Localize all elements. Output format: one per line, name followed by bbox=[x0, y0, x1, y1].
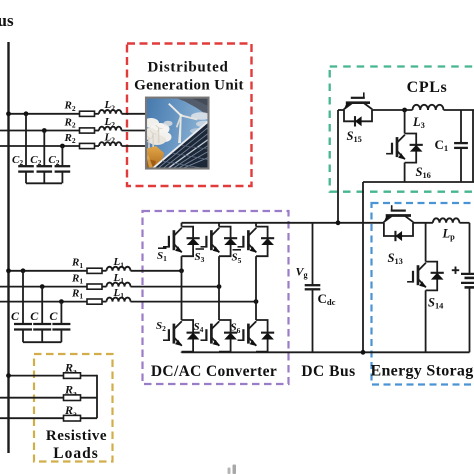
resistor R1 (3) bbox=[87, 299, 102, 304]
svg-text:Ra: Ra bbox=[64, 403, 77, 418]
svg-text:L2: L2 bbox=[104, 99, 116, 112]
R1 label (2) bbox=[71, 272, 83, 285]
capacitor C (3) plates bbox=[52, 324, 70, 330]
L2 label (2) bbox=[104, 116, 116, 129]
capacitor C (1) stub bbox=[22, 271, 24, 324]
svg-text:L1: L1 bbox=[113, 272, 125, 285]
node: S16 tap bbox=[402, 108, 407, 113]
S4 label bbox=[194, 321, 204, 334]
svg-text:R2: R2 bbox=[64, 132, 76, 145]
resistor Ra (2) bbox=[64, 395, 81, 401]
svg-text:Ra: Ra bbox=[64, 360, 77, 375]
IGBT S3 (top, with antiparallel diode) bbox=[201, 227, 238, 257]
wire leg3 emitter stub bbox=[255, 351, 257, 354]
svg-text:L3: L3 bbox=[412, 115, 425, 130]
svg-text:CPLs: CPLs bbox=[407, 79, 448, 96]
node: CPL feed on DC+ rail bbox=[336, 220, 341, 225]
Ra label (2) bbox=[64, 383, 77, 398]
wire Cdc branch lower bbox=[312, 289, 314, 352]
wire leg3 collector stub bbox=[255, 223, 257, 227]
wire battery top bbox=[469, 223, 471, 273]
DGU photo (wind turbines and solar panels) bbox=[142, 98, 212, 169]
DC- rail (bottom) bbox=[182, 351, 470, 353]
node: C2b tap bbox=[42, 128, 47, 133]
svg-text:L2: L2 bbox=[104, 116, 116, 129]
S6 label bbox=[231, 322, 241, 335]
svg-text:C2: C2 bbox=[30, 154, 41, 167]
wire leg2 collector stub bbox=[218, 223, 220, 227]
wire leg2 midpoint bbox=[218, 256, 220, 320]
svg-text:Loads: Loads bbox=[53, 445, 99, 462]
Lp label bbox=[442, 227, 456, 242]
IGBT S13 (horizontal, with antiparallel diode) bbox=[384, 205, 414, 241]
svg-text:R2: R2 bbox=[64, 116, 76, 129]
svg-text:DC Bus: DC Bus bbox=[301, 363, 355, 380]
wire C1 lower bbox=[460, 148, 462, 182]
capacitor C2 (3) lower stub bbox=[61, 172, 63, 184]
wire load common bbox=[96, 375, 98, 418]
wire leg1 emitter stub bbox=[181, 351, 183, 354]
svg-text:R1: R1 bbox=[71, 272, 83, 285]
wire load phase 2 bbox=[0, 397, 97, 399]
CPLs title bbox=[407, 79, 448, 96]
wire S16 emitter stub bbox=[404, 163, 406, 182]
inductor L2 (3) bbox=[99, 142, 122, 146]
node: leg3 midpoint bbox=[254, 299, 259, 304]
svg-text:C: C bbox=[30, 309, 39, 323]
resistor R2 (2) bbox=[80, 128, 95, 133]
Resistive Loads title bbox=[46, 428, 107, 462]
capacitor C2 (1) plates bbox=[18, 166, 34, 171]
capacitor C1 plates bbox=[454, 143, 468, 148]
IGBT S14 (vertical, with antiparallel diode) bbox=[407, 262, 444, 291]
R2 label (2) bbox=[64, 116, 76, 129]
wire phase 2 to converter bbox=[0, 286, 219, 288]
capacitor C (2) lower stub bbox=[41, 330, 43, 343]
wire battery bottom bbox=[469, 287, 471, 352]
DGU boundary box (red dashed) bbox=[127, 44, 252, 187]
wire leg3 midpoint bbox=[255, 256, 257, 320]
S14 label bbox=[428, 296, 444, 311]
svg-text:us: us bbox=[0, 11, 14, 30]
S3 label with overbar bbox=[195, 249, 205, 264]
svg-text:S5: S5 bbox=[232, 252, 242, 265]
node: leg1 midpoint bbox=[179, 268, 184, 273]
AC bus label bbox=[0, 11, 14, 30]
wire load phase 3 bbox=[0, 417, 97, 419]
C label (1) bbox=[11, 309, 20, 323]
capacitor C (1) lower stub bbox=[22, 330, 24, 343]
wire leg2 emitter stub bbox=[218, 351, 220, 354]
Distributed Generation Unit title bbox=[134, 60, 244, 94]
Ra label (1) bbox=[64, 360, 77, 375]
svg-text:C: C bbox=[11, 309, 20, 323]
svg-text:DC/AC Converter: DC/AC Converter bbox=[151, 363, 277, 380]
DC/AC Converter title bbox=[151, 363, 277, 380]
capacitor C2 (2) stub bbox=[43, 131, 45, 167]
svg-text:R2: R2 bbox=[64, 100, 76, 113]
capacitor C (2) plates bbox=[33, 324, 51, 330]
battery plus sign bbox=[452, 267, 459, 274]
wire CPL bottom line bbox=[363, 181, 474, 183]
L2 label (1) bbox=[104, 99, 116, 112]
svg-text:S16: S16 bbox=[416, 165, 431, 180]
IGBT S15 (horizontal, with antiparallel diode) bbox=[344, 92, 373, 126]
wire leg1 midpoint bbox=[181, 256, 183, 320]
resistor R1 (1) bbox=[87, 268, 102, 273]
svg-text:Ra: Ra bbox=[64, 383, 77, 398]
inductor L2 (1) bbox=[99, 110, 122, 114]
capacitor Cdc plates bbox=[305, 285, 321, 289]
node: bus tap phase1 DGU bbox=[6, 111, 11, 116]
svg-text:L1: L1 bbox=[113, 287, 125, 300]
L1 label (1) bbox=[113, 256, 125, 269]
IGBT S1 (top, with antiparallel diode) bbox=[163, 227, 200, 257]
inductor L1 (3) bbox=[107, 298, 131, 302]
IGBT S2 (bottom, with antiparallel diode) bbox=[163, 320, 200, 352]
DC+ rail (top) bbox=[182, 222, 470, 224]
resistor R2 (1) bbox=[80, 111, 95, 116]
S1 label with overbar bbox=[157, 248, 167, 263]
wire CPL feed (vertical) bbox=[337, 110, 339, 223]
wire phase 3 to DGU bbox=[0, 145, 146, 147]
svg-text:S4: S4 bbox=[194, 321, 204, 334]
svg-text:Resistive: Resistive bbox=[46, 428, 107, 444]
S5 label with overbar bbox=[232, 250, 242, 265]
svg-text:Vg: Vg bbox=[296, 265, 309, 280]
capacitor C2 (2) plates bbox=[37, 166, 53, 171]
resistor Ra (1) bbox=[64, 373, 81, 379]
faint caption fragment bbox=[228, 465, 237, 474]
svg-text:L2: L2 bbox=[104, 131, 116, 144]
wire leg1 collector stub bbox=[181, 223, 183, 227]
svg-text:Energy Storage: Energy Storage bbox=[371, 363, 474, 380]
svg-text:Generation Unit: Generation Unit bbox=[134, 78, 244, 94]
capacitor C (1) plates bbox=[14, 324, 32, 330]
R2 label (3) bbox=[64, 132, 76, 145]
inductor L3 bbox=[413, 105, 444, 110]
S16 label bbox=[416, 165, 431, 180]
R2 label (1) bbox=[64, 100, 76, 113]
wire phase 3 to converter bbox=[0, 301, 256, 303]
IGBT S6 (bottom, with antiparallel diode) bbox=[238, 320, 275, 352]
wire CPL top line bbox=[338, 109, 474, 111]
capacitor C (3) lower stub bbox=[60, 330, 62, 343]
DC/AC converter boundary box (purple dashed) bbox=[143, 211, 289, 384]
node: leg2 midpoint bbox=[217, 284, 222, 289]
capacitor C2 (3) stub bbox=[61, 146, 63, 166]
C2 label (3) bbox=[48, 154, 59, 167]
Ra label (3) bbox=[64, 403, 77, 418]
wire phase 1 to DGU bbox=[9, 113, 146, 115]
capacitor C (3) stub bbox=[60, 302, 62, 324]
L1 label (2) bbox=[113, 272, 125, 285]
wire C1 upper bbox=[460, 110, 462, 143]
C2 label (2) bbox=[30, 154, 41, 167]
node: bus tap phase1 converter bbox=[6, 268, 11, 273]
S2 label bbox=[156, 320, 166, 333]
svg-text:S6: S6 bbox=[231, 322, 241, 335]
inductor L1 (2) bbox=[107, 283, 131, 287]
inductor L1 (1) bbox=[107, 267, 131, 271]
wire S14 emitter bbox=[425, 290, 427, 352]
DC Bus title bbox=[301, 363, 355, 380]
svg-text:S14: S14 bbox=[428, 296, 444, 311]
wire C2 common bbox=[26, 182, 62, 184]
svg-text:C: C bbox=[49, 309, 58, 323]
wire phase 2 to DGU bbox=[0, 130, 146, 132]
battery (energy storage source) bbox=[461, 274, 474, 288]
node: CPL return on DC- rail bbox=[361, 350, 366, 355]
inductor Lp bbox=[433, 218, 460, 222]
svg-text:S13: S13 bbox=[388, 251, 403, 266]
C1 label bbox=[435, 137, 449, 153]
capacitor C2 (1) stub bbox=[25, 114, 27, 166]
wire S16 collector stub bbox=[404, 110, 406, 134]
IGBT S16 (vertical, with antiparallel diode) bbox=[386, 134, 423, 163]
wire CPL right edge (vertical) bbox=[472, 110, 474, 182]
R1 label (3) bbox=[71, 287, 83, 300]
node: C tap c bbox=[59, 299, 64, 304]
svg-text:R1: R1 bbox=[71, 287, 83, 300]
wire phase 1 to converter bbox=[9, 270, 182, 272]
wire Cdc branch upper bbox=[312, 223, 314, 285]
AC bus vertical line bbox=[7, 42, 9, 453]
L2 label (3) bbox=[104, 131, 116, 144]
resistor R2 (3) bbox=[80, 143, 95, 148]
svg-text:C2: C2 bbox=[12, 154, 23, 167]
IGBT S5 (top, with antiparallel diode) bbox=[238, 227, 275, 257]
resistor R1 (2) bbox=[87, 284, 102, 289]
svg-text:Lp: Lp bbox=[442, 227, 456, 242]
L3 label bbox=[412, 115, 425, 130]
capacitor C2 (1) lower stub bbox=[25, 172, 27, 184]
CPLs boundary box (green dashed) bbox=[330, 67, 474, 192]
svg-text:Cdc: Cdc bbox=[318, 291, 336, 307]
capacitor C2 (2) lower stub bbox=[43, 172, 45, 184]
Energy storage boundary box (blue dashed) bbox=[372, 203, 474, 385]
node: C tap b bbox=[40, 284, 45, 289]
wire S14 collector stub bbox=[425, 223, 427, 262]
svg-text:C1: C1 bbox=[435, 137, 449, 153]
R1 label (1) bbox=[71, 257, 83, 270]
wire load phase 1 bbox=[9, 375, 98, 377]
S15 label bbox=[347, 129, 362, 144]
Cdc label bbox=[318, 291, 336, 307]
inductor L2 (2) bbox=[99, 127, 122, 131]
IGBT S4 (bottom, with antiparallel diode) bbox=[201, 320, 238, 352]
svg-text:S1: S1 bbox=[157, 250, 167, 263]
wire C common bbox=[23, 341, 61, 343]
node: bus tap loads bbox=[6, 373, 11, 378]
svg-text:S15: S15 bbox=[347, 129, 362, 144]
Energy Storage title bbox=[371, 363, 474, 380]
node: C2a tap bbox=[24, 111, 29, 116]
C label (3) bbox=[49, 309, 58, 323]
Vg label bbox=[296, 265, 309, 280]
svg-text:Distributed: Distributed bbox=[147, 60, 228, 76]
node: C tap a bbox=[21, 268, 26, 273]
svg-text:S3: S3 bbox=[195, 251, 205, 264]
svg-text:S2: S2 bbox=[156, 320, 166, 333]
wire DC bus right / CPL return (vertical) bbox=[362, 182, 364, 352]
svg-text:L1: L1 bbox=[113, 256, 125, 269]
node: C2c tap bbox=[60, 144, 65, 149]
C2 label (1) bbox=[12, 154, 23, 167]
C label (2) bbox=[30, 309, 39, 323]
S13 label bbox=[388, 251, 403, 266]
L1 label (3) bbox=[113, 287, 125, 300]
capacitor C2 (3) plates bbox=[55, 166, 71, 171]
svg-text:R1: R1 bbox=[71, 257, 83, 270]
svg-text:C2: C2 bbox=[48, 154, 59, 167]
capacitor C (2) stub bbox=[41, 287, 43, 324]
resistor Ra (3) bbox=[64, 415, 81, 421]
Resistive loads boundary box (yellow dashed) bbox=[34, 354, 113, 462]
